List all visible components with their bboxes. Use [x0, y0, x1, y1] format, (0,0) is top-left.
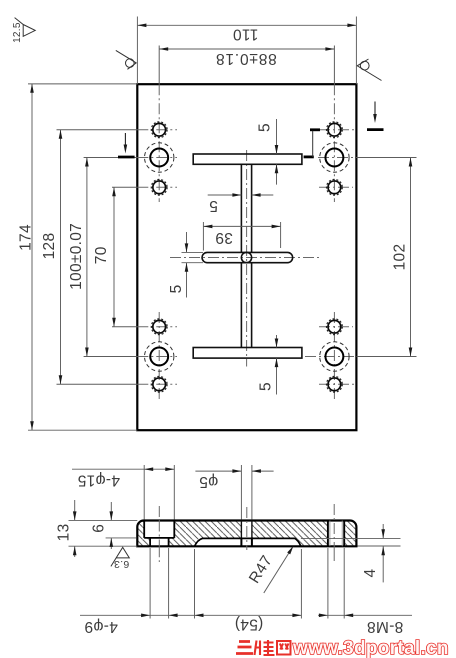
- svg-text:13: 13: [56, 523, 73, 541]
- svg-text:12.5: 12.5: [12, 22, 23, 43]
- svg-text:6.3: 6.3: [114, 558, 130, 570]
- svg-text:88±0.18: 88±0.18: [215, 50, 277, 67]
- svg-text:6: 6: [91, 524, 108, 533]
- svg-text:5: 5: [257, 123, 274, 132]
- svg-text:70: 70: [93, 246, 110, 264]
- svg-text:8-M8: 8-M8: [367, 618, 404, 635]
- svg-text:110: 110: [233, 25, 259, 42]
- svg-text:39: 39: [215, 229, 233, 246]
- svg-text:4-φ15: 4-φ15: [77, 471, 120, 488]
- svg-text:4: 4: [362, 568, 379, 577]
- svg-text:www.3dportal.cn: www.3dportal.cn: [292, 638, 449, 658]
- svg-text:5: 5: [209, 197, 218, 214]
- svg-text:174: 174: [17, 224, 34, 251]
- svg-text:5: 5: [168, 284, 185, 293]
- svg-text:(54): (54): [235, 616, 264, 633]
- svg-text:φ5: φ5: [199, 473, 218, 490]
- svg-text:100±0.07: 100±0.07: [68, 223, 85, 290]
- svg-text:102: 102: [391, 244, 408, 271]
- svg-text:4-φ9: 4-φ9: [84, 618, 118, 635]
- svg-text:128: 128: [41, 233, 58, 260]
- svg-text:5: 5: [258, 382, 275, 391]
